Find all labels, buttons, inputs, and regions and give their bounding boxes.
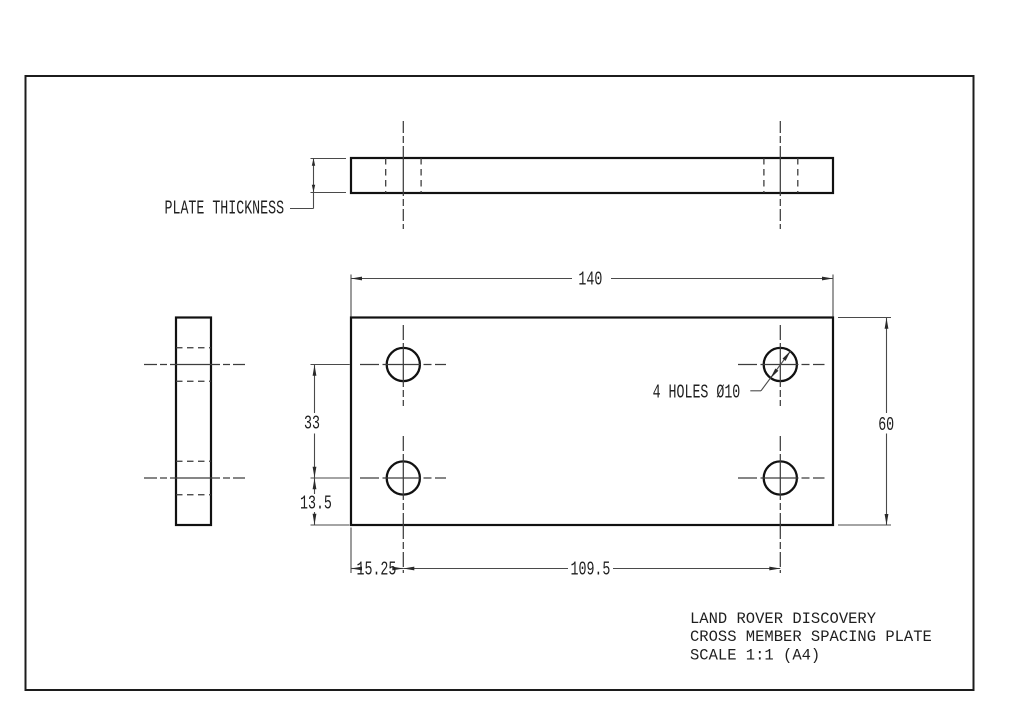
hole top-left — [387, 348, 420, 381]
dimension 15.25 — [351, 528, 403, 574]
centerline vertical bottom-right hole extended to dim line — [779, 436, 781, 573]
centerline vertical top-right hole — [779, 325, 781, 406]
svg-text:140: 140 — [578, 268, 602, 290]
dimension 13.5 — [311, 478, 350, 525]
svg-text:PLATE THICKNESS: PLATE THICKNESS — [165, 197, 285, 219]
centerline vertical bottom-left hole extended to dim line — [402, 436, 404, 573]
front view plate outline — [351, 318, 833, 526]
dimension 33 — [311, 365, 350, 479]
svg-text:LAND ROVER DISCOVERY: LAND ROVER DISCOVERY — [690, 610, 877, 628]
hole bottom-right — [764, 461, 797, 494]
centerline vertical top-left hole — [402, 325, 404, 406]
dimension 109.5 — [403, 568, 780, 570]
centerline horizontal bottom-left hole — [360, 477, 446, 479]
hole bottom-left — [387, 461, 420, 494]
svg-text:33: 33 — [304, 412, 320, 434]
centerline horizontal bottom-right hole — [738, 477, 825, 479]
centerline horizontal top-left hole — [360, 364, 446, 366]
svg-text:CROSS MEMBER SPACING PLATE: CROSS MEMBER SPACING PLATE — [690, 628, 932, 646]
drawing border frame — [26, 76, 974, 690]
svg-text:60: 60 — [878, 414, 894, 436]
svg-text:109.5: 109.5 — [571, 558, 611, 580]
top view plate outline — [351, 158, 833, 193]
hole top-right — [764, 348, 797, 381]
side view hidden hole lines top — [176, 348, 211, 382]
svg-text:4 HOLES Ø10: 4 HOLES Ø10 — [653, 381, 741, 403]
side view plate outline — [176, 318, 211, 526]
svg-text:SCALE 1:1 (A4): SCALE 1:1 (A4) — [690, 646, 820, 664]
top view centerline left — [402, 121, 404, 229]
side view centerline top — [144, 364, 245, 366]
side view hidden hole lines bottom — [176, 461, 211, 495]
dimension 140 — [351, 275, 833, 317]
top view hidden hole lines left — [386, 158, 421, 193]
plate thickness dimension — [290, 158, 346, 208]
svg-text:15.25: 15.25 — [357, 558, 397, 580]
top view centerline right — [779, 121, 781, 229]
side view centerline bottom — [144, 477, 245, 479]
dimension 60 — [838, 318, 891, 526]
svg-text:13.5: 13.5 — [300, 492, 332, 514]
leader 4 HOLES O10 — [750, 351, 790, 391]
top view hidden hole lines right — [764, 158, 798, 193]
centerline horizontal top-right hole — [738, 364, 825, 366]
